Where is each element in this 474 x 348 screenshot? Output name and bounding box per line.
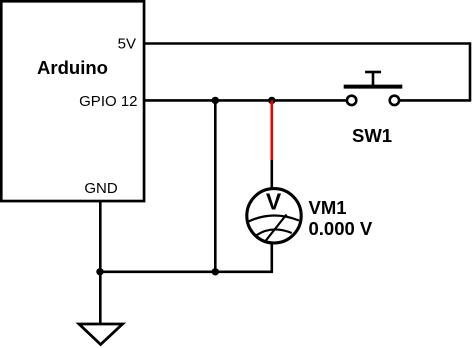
pushbutton SW1 — [344, 72, 403, 105]
wire voltmeter top — [270, 160, 273, 189]
svg-text:5V: 5V — [118, 36, 136, 53]
Arduino board — [1, 1, 144, 201]
wire GPIO 12 — [144, 99, 347, 102]
wire vertical from GPIO junction to bottom — [214, 100, 217, 271]
wire bottom horizontal — [100, 270, 273, 273]
wire GND from board — [99, 201, 102, 323]
voltmeter VM1 — [247, 189, 301, 244]
junction bottom left — [96, 268, 103, 275]
wire voltmeter bottom — [270, 243, 273, 272]
wire red probe segment — [270, 100, 273, 160]
svg-text:VM1: VM1 — [309, 197, 347, 218]
junction GPIO-wire left — [212, 97, 219, 104]
svg-text:Arduino: Arduino — [37, 57, 108, 78]
wire 5V vertical right — [469, 42, 472, 100]
junction bottom middle — [212, 268, 219, 275]
svg-text:SW1: SW1 — [352, 125, 392, 146]
wire 5V horizontal top — [144, 42, 470, 45]
svg-text:GPIO 12: GPIO 12 — [79, 93, 137, 110]
wire switch to 5V — [399, 99, 471, 102]
svg-text:GND: GND — [84, 180, 118, 197]
svg-text:V: V — [266, 189, 282, 215]
ground — [79, 324, 123, 345]
svg-text:0.000 V: 0.000 V — [309, 218, 373, 239]
junction GPIO-wire right — [268, 97, 275, 104]
